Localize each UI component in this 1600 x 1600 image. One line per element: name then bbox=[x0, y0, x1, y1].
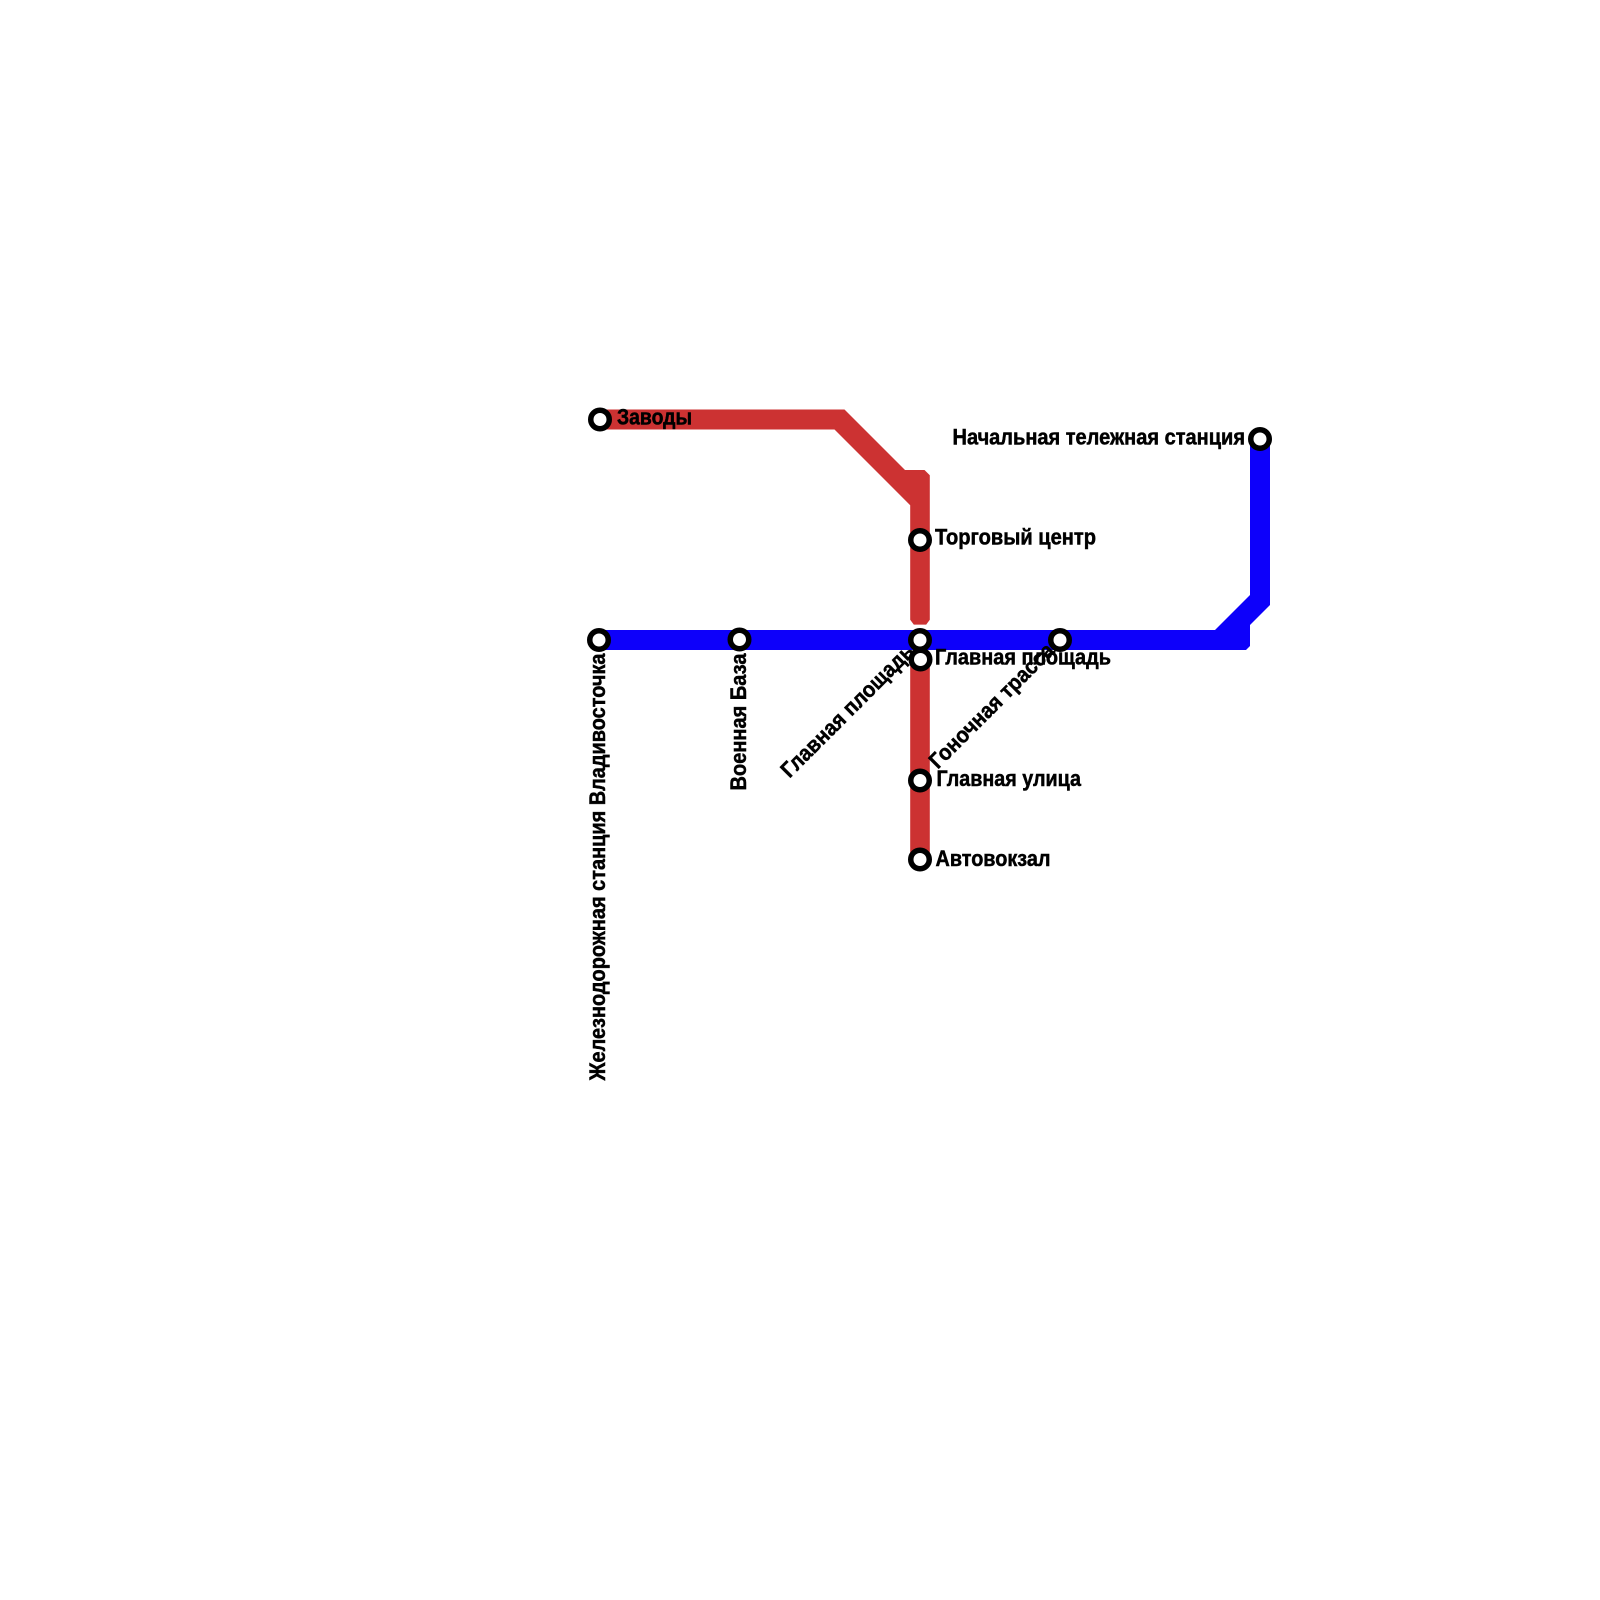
svg-text:Главная площадь: Главная площадь bbox=[775, 639, 919, 783]
svg-text:Железнодорожная станция Владив: Железнодорожная станция Владивосточка bbox=[585, 653, 610, 1082]
station Главная площадь (red) bbox=[911, 650, 930, 669]
svg-text:Военная База: Военная База bbox=[726, 653, 751, 791]
svg-text:Автовокзал: Автовокзал bbox=[936, 846, 1051, 871]
svg-text:Торговый центр: Торговый центр bbox=[935, 524, 1096, 549]
station Железнодорожная станция Владивосточка bbox=[590, 631, 609, 650]
blue line (Владивосточка - Начальная тележная станция) bbox=[597, 438, 1270, 650]
station Гоночная трасса bbox=[1051, 631, 1070, 650]
red line lower segment (Главная площадь - Автовокзал) bbox=[910, 652, 930, 860]
station Автовокзал bbox=[911, 850, 930, 869]
station Военная База bbox=[730, 630, 749, 649]
station Главная площадь (blue) bbox=[911, 631, 930, 650]
svg-text:Начальная тележная станция: Начальная тележная станция bbox=[953, 425, 1246, 450]
red line upper segment (Заводы - Главная площадь) bbox=[598, 410, 930, 625]
svg-text:Главная улица: Главная улица bbox=[937, 766, 1082, 791]
station Главная улица bbox=[911, 771, 930, 790]
station Заводы bbox=[591, 410, 610, 429]
station Торговый центр bbox=[911, 531, 930, 550]
svg-text:Заводы: Заводы bbox=[617, 404, 692, 429]
station Начальная тележная станция bbox=[1251, 430, 1270, 449]
